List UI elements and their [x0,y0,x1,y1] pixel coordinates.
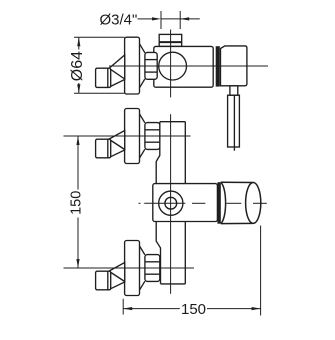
top view outlet stub Ø3/4 [159,34,182,46]
front view thick joint bar [217,182,220,224]
front view upper flange [125,109,140,164]
dimension 150 horizontal lines and arrows [123,226,260,316]
front view upper wall fitting [96,139,111,158]
front view riser tube [156,122,185,284]
front view horizontal centerline dashes [139,202,267,204]
front view upper eccentric funnel [109,131,124,158]
top view end cap [221,46,247,86]
dimension Ø3/4 leader and arrows [138,11,200,29]
top view hex nut [145,52,157,79]
top view lever neck [230,86,238,95]
dimension 150 vertical lines and arrows [64,136,195,268]
front view cartridge outer circle [159,191,183,215]
front view handle grip cylinder [221,182,253,223]
front view upper cone flange to nut [140,114,145,158]
front view lower flange [125,241,140,296]
front view vertical centerline [170,114,172,293]
svg-text:150: 150 [181,301,206,318]
top view horizontal centerline [109,65,268,67]
front view lower hex nut [145,255,160,282]
front view lower eccentric funnel [109,263,124,290]
front view lower cone flange to nut [140,246,145,290]
front view handle end ellipse [246,183,261,224]
svg-text:Ø3/4": Ø3/4" [100,12,138,29]
svg-text:Ø64: Ø64 [69,51,86,81]
top view thick joint bar [216,46,220,86]
dimension Ø64 lines and arrows [74,37,125,93]
top view cone flange to nut [140,44,145,88]
front view cartridge inner circle [165,197,177,209]
svg-text:150: 150 [68,191,84,215]
top view eccentric funnel [109,55,124,87]
top view cartridge circle [159,52,187,80]
front view upper hex nut [145,123,160,150]
top view lever rod [228,95,240,151]
front view body block [153,184,218,222]
top view wall fitting [96,68,111,87]
top view body [154,46,213,87]
top view flange [125,37,140,94]
top view vertical centerline [170,30,172,98]
front view lower wall fitting [96,271,111,290]
